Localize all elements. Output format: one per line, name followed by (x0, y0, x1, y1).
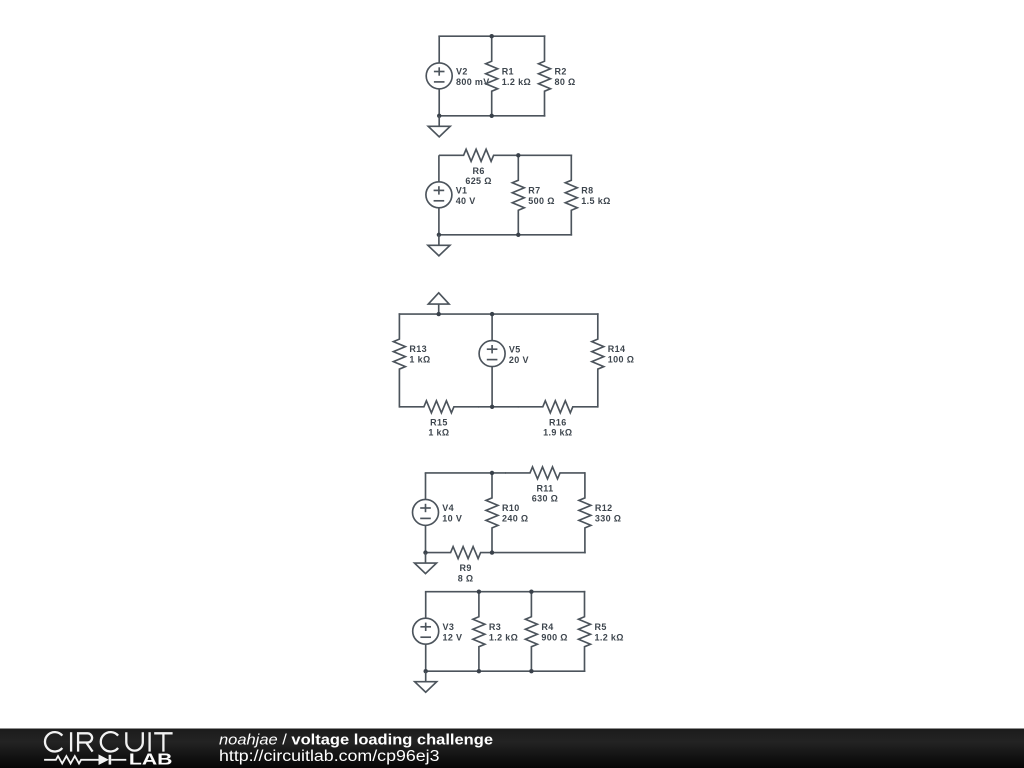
junction: V4 bottom / ground node (423, 550, 427, 554)
junction: R7 bottom node (516, 233, 520, 237)
resistor R13 (393, 314, 405, 407)
resistor R8 (565, 155, 577, 235)
logo letter C (45, 732, 62, 751)
resistor R5 (579, 592, 591, 672)
label R11 630 &#937; (532, 484, 558, 504)
logo diode (99, 754, 127, 765)
svg-text:800 mV: 800 mV (456, 77, 490, 87)
voltage source V2 (426, 36, 452, 116)
junction: V1 bottom / ground node (437, 233, 441, 237)
svg-text:1 kΩ: 1 kΩ (428, 428, 449, 438)
svg-text:240 Ω: 240 Ω (502, 514, 528, 524)
wire: circuit2 bottom rail (439, 234, 571, 236)
wire: circuit5 bottom rail (426, 670, 585, 672)
resistor R15 (399, 401, 479, 413)
logo letter I (70, 732, 72, 751)
junction: R4 top node (529, 590, 533, 594)
wire: circuit1 top rail (439, 35, 544, 37)
logo letter R (78, 733, 93, 751)
svg-text:100 Ω: 100 Ω (608, 355, 634, 365)
svg-text:330 Ω: 330 Ω (595, 514, 621, 524)
svg-text:R6: R6 (472, 166, 484, 176)
resistor R14 (592, 314, 604, 407)
resistor R3 (473, 592, 485, 672)
junction: R6/R7 node (516, 153, 520, 157)
label V5 20 V (509, 344, 529, 365)
wire: circuit4 bottom rail right segment (492, 552, 585, 554)
resistor R1 (486, 36, 498, 116)
svg-text:R5: R5 (595, 622, 607, 632)
svg-text:V4: V4 (442, 503, 454, 513)
junction: R3 top node (477, 590, 481, 594)
footer bar (0, 728, 1024, 768)
label R3 1.2 k&#937; (489, 622, 518, 643)
label R1 1.2 k&#937; (502, 67, 531, 88)
svg-text:R14: R14 (608, 344, 626, 354)
junction: V2 bottom / ground node (437, 114, 441, 118)
svg-text:8 Ω: 8 Ω (458, 573, 474, 583)
logo letter U (126, 732, 143, 750)
label R12 330 &#937; (595, 503, 621, 523)
svg-text:900 Ω: 900 Ω (541, 632, 567, 642)
label V3 12 V (443, 622, 463, 643)
junction: V3 bottom / ground node (424, 669, 428, 673)
logo wire with resistor (44, 756, 98, 763)
power supply +V (circuit3) (428, 293, 449, 314)
ground (circuit2) (428, 235, 450, 256)
svg-text:1.2 kΩ: 1.2 kΩ (595, 632, 624, 642)
svg-text:http://circuitlab.com/cp96ej3: http://circuitlab.com/cp96ej3 (219, 748, 440, 765)
svg-text:10 V: 10 V (442, 514, 462, 524)
svg-text:R9: R9 (459, 563, 471, 573)
svg-text:V3: V3 (443, 622, 455, 632)
svg-text:R10: R10 (502, 503, 520, 513)
label R6 625 &#937; (465, 166, 491, 186)
svg-text:80 Ω: 80 Ω (555, 77, 576, 87)
svg-text:1 kΩ: 1 kΩ (409, 355, 430, 365)
label V4 10 V (442, 503, 462, 523)
logo letter T (154, 733, 172, 751)
label R10 240 &#937; (502, 503, 528, 523)
resistor R2 (539, 36, 551, 116)
resistor R9 (426, 547, 492, 559)
label R8 1.5 k&#937; (581, 186, 610, 207)
svg-text:R1: R1 (502, 67, 514, 77)
svg-text:R15: R15 (430, 417, 448, 427)
voltage source V4 (413, 473, 439, 553)
svg-text:1.5 kΩ: 1.5 kΩ (581, 196, 610, 206)
ground (circuit5) (415, 671, 437, 692)
svg-text:20 V: 20 V (509, 355, 529, 365)
svg-text:R13: R13 (409, 344, 427, 354)
junction: V5 bottom node (490, 405, 494, 409)
label R5 1.2 k&#937; (595, 622, 624, 643)
wire: circuit1 bottom rail (439, 115, 544, 117)
label R9 8 &#937; (458, 563, 474, 583)
logo letter C 2 (101, 732, 118, 751)
svg-text:12 V: 12 V (443, 632, 463, 642)
svg-text:R12: R12 (595, 503, 613, 513)
svg-text:V1: V1 (456, 186, 468, 196)
label R4 900 &#937; (541, 622, 567, 643)
svg-text:1.2 kΩ: 1.2 kΩ (502, 77, 531, 87)
resistor R4 (525, 592, 537, 672)
wire: circuit5 top rail (426, 591, 585, 593)
label R2 80 &#937; (555, 67, 576, 88)
svg-text:1.2 kΩ: 1.2 kΩ (489, 632, 518, 642)
junction: supply node (437, 312, 441, 316)
junction: V5 top node (490, 312, 494, 316)
label R14 100 &#937; (608, 344, 634, 365)
resistor R12 (579, 473, 591, 553)
junction: R9/R10 node (490, 550, 494, 554)
svg-text:noahjae / voltage loading chal: noahjae / voltage loading challenge (219, 732, 493, 749)
svg-text:630 Ω: 630 Ω (532, 494, 558, 504)
resistor R16 (518, 401, 598, 413)
svg-text:R3: R3 (489, 622, 501, 632)
resistor R7 (512, 155, 524, 235)
voltage source V3 (413, 592, 439, 672)
label V1 40 V (456, 186, 476, 207)
svg-text:1.9 kΩ: 1.9 kΩ (543, 428, 572, 438)
svg-text:R7: R7 (528, 186, 540, 196)
svg-text:40 V: 40 V (456, 196, 476, 206)
ground (circuit4) (415, 553, 437, 574)
junction: R1 bottom node (490, 114, 494, 118)
resistor R10 (486, 473, 498, 553)
svg-text:V2: V2 (456, 67, 468, 77)
junction: R3 bottom node (477, 669, 481, 673)
svg-text:LAB: LAB (129, 752, 173, 768)
svg-text:R2: R2 (555, 67, 567, 77)
ground (circuit1) (428, 116, 450, 137)
junction: R1 top node (490, 34, 494, 38)
label R15 1 k&#937; (428, 417, 449, 437)
svg-text:V5: V5 (509, 344, 521, 354)
svg-text:R16: R16 (549, 417, 567, 427)
svg-text:R4: R4 (541, 622, 553, 632)
svg-text:R8: R8 (581, 186, 593, 196)
label V2 800 mV (456, 67, 490, 88)
wire: circuit3 top rail (399, 313, 597, 315)
junction: R10 top node (490, 471, 494, 475)
wire: circuit4 top rail left segment (426, 472, 506, 474)
wire: circuit3 bottom rail (center segment) (479, 406, 518, 408)
voltage source V1 (426, 155, 452, 235)
svg-text:500 Ω: 500 Ω (528, 196, 554, 206)
logo letter I 2 (148, 732, 150, 751)
label R13 1 k&#937; (409, 344, 430, 365)
wire: circuit2 top rail right segment (518, 154, 571, 156)
label R7 500 &#937; (528, 186, 554, 207)
resistor R6 (439, 149, 518, 161)
resistor R11 (505, 467, 585, 479)
label R16 1.9 k&#937; (543, 417, 572, 437)
voltage source V5 (479, 314, 505, 407)
junction: R4 bottom node (529, 669, 533, 673)
svg-text:R11: R11 (536, 484, 553, 494)
svg-text:625 Ω: 625 Ω (465, 176, 491, 186)
